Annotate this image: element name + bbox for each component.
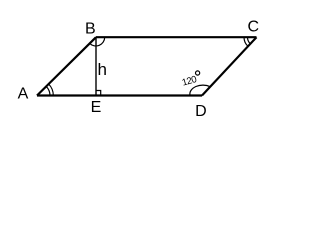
svg-text:D: D: [195, 103, 207, 120]
angle arc at C (inner): [248, 37, 251, 44]
svg-text:E: E: [91, 99, 102, 116]
angle arc at B: [90, 37, 105, 46]
angle arc at C (outer): [244, 37, 248, 46]
side AB: [37, 37, 96, 95]
svg-text:h: h: [97, 60, 106, 79]
side AD (base of parallelogram): [37, 94, 202, 96]
svg-text:C: C: [248, 19, 260, 36]
degree symbol of 120 label: [196, 71, 200, 75]
height segment BE: [95, 37, 97, 95]
svg-text:B: B: [85, 20, 96, 37]
angle arc at D: [190, 85, 210, 95]
angle arc at A (inner): [46, 86, 50, 95]
side DC: [202, 37, 257, 95]
svg-text:A: A: [18, 86, 29, 103]
right-angle mark at E: [96, 91, 101, 96]
angle value 120 at D (rotated): [181, 74, 198, 89]
side BC (top): [96, 36, 257, 38]
angle arc at A (outer): [49, 84, 54, 96]
